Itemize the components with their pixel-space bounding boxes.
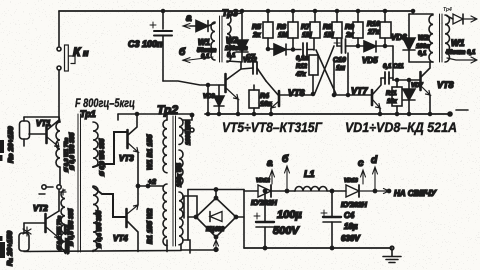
wire Tr3 primary to rail bbox=[227, 10, 244, 41]
wire cross coupling left bbox=[316, 50, 336, 94]
diode VD3 bbox=[214, 85, 224, 114]
svg-text:1М: 1М bbox=[278, 32, 288, 39]
label VD6 bbox=[391, 33, 407, 42]
svg-text:Ø 0,4 W6 35б: Ø 0,4 W6 35б bbox=[96, 210, 103, 248]
wire Tr1 bottoms to rail bbox=[65, 250, 93, 252]
label F 800Hz-5kHz bbox=[75, 98, 135, 110]
thyristor VD9 KU202N bbox=[256, 178, 295, 197]
wire VT1 collector feed bbox=[24, 116, 59, 118]
svg-text:R5: R5 bbox=[252, 24, 261, 31]
label VT1 bbox=[36, 119, 51, 128]
svg-text:VT4: VT4 bbox=[113, 234, 128, 243]
svg-text:R7: R7 bbox=[301, 24, 311, 31]
Tr3 primary winding W2 right coil bbox=[227, 15, 231, 62]
svg-text:10к: 10к bbox=[387, 99, 398, 105]
diode VD4 bbox=[267, 44, 302, 55]
svg-text:1м: 1м bbox=[336, 65, 346, 72]
transformer Tr1 label bbox=[80, 109, 96, 119]
capacitor C8 0.1u bbox=[303, 43, 314, 56]
svg-text:VD6: VD6 bbox=[391, 33, 407, 42]
svg-text:Тр1: Тр1 bbox=[80, 109, 96, 119]
label R10 27k bbox=[367, 21, 380, 36]
transformer Tr1 bbox=[56, 114, 98, 252]
label W2 100vit of Tr3 bbox=[225, 36, 248, 59]
svg-text:R10: R10 bbox=[367, 21, 380, 28]
resistor R10 bbox=[380, 10, 391, 47]
label VT7 bbox=[351, 86, 369, 96]
wire emitter bus down bbox=[58, 117, 60, 122]
Tr1 winding W6 right lower bbox=[93, 186, 98, 250]
label 100u 500V bbox=[273, 209, 302, 237]
svg-text:0,1м: 0,1м bbox=[296, 56, 309, 62]
label R emitter 20-150 rotated bbox=[6, 126, 15, 163]
label R11 10k bbox=[386, 91, 398, 105]
label W5 rotated bbox=[68, 208, 75, 246]
svg-text:R11: R11 bbox=[386, 91, 397, 97]
resistor R7 bbox=[310, 10, 320, 51]
svg-text:Rэ 20÷150: Rэ 20÷150 bbox=[6, 126, 15, 163]
terminal b arrow bbox=[282, 153, 290, 193]
wire junction vertical bbox=[312, 62, 336, 97]
svg-text:VD13: VD13 bbox=[344, 178, 358, 184]
svg-text:1М: 1М bbox=[324, 32, 334, 39]
transistor VT5 bbox=[226, 62, 242, 114]
label VT3 bbox=[119, 154, 134, 163]
wire bottom right rail bbox=[244, 247, 392, 249]
terminal d arrow bbox=[371, 155, 378, 193]
Tr1 core bbox=[78, 114, 81, 252]
diode VD6 bbox=[403, 14, 433, 62]
svg-text:а: а bbox=[267, 158, 273, 169]
diode VD1 on winding output a bbox=[183, 21, 215, 32]
label R4 10k bbox=[260, 93, 272, 108]
svg-text:0,1: 0,1 bbox=[201, 54, 210, 60]
Tr2 primary W1 left coil bbox=[163, 120, 167, 173]
Tr1 winding W4 right upper bbox=[93, 122, 98, 167]
svg-text:а: а bbox=[186, 13, 192, 24]
transistor VT4 bbox=[93, 187, 138, 252]
wire output bus bbox=[244, 190, 258, 192]
Tr2 primary W2 left lower coil bbox=[163, 184, 167, 246]
svg-text:VT2: VT2 bbox=[33, 204, 48, 213]
svg-text:НА СВЕЧУ: НА СВЕЧУ bbox=[394, 189, 437, 198]
svg-text:VD12: VD12 bbox=[256, 178, 270, 184]
wire output b with arrow bbox=[183, 57, 213, 63]
label caption VT5-VT8 KT315G bbox=[222, 120, 323, 135]
terminal c arrow bbox=[358, 158, 366, 184]
Tr2 secondary W5 right upper coil bbox=[179, 118, 183, 144]
svg-text:W2: W2 bbox=[418, 35, 429, 42]
transistor VT7 bbox=[333, 78, 381, 114]
diode VD5 bbox=[357, 41, 394, 52]
svg-text:47к: 47к bbox=[295, 72, 307, 78]
label C10 1m bbox=[333, 57, 346, 72]
svg-text:С4: С4 bbox=[344, 211, 355, 220]
svg-text:КУ202Н: КУ202Н bbox=[341, 202, 368, 209]
label KU202N right bbox=[341, 202, 368, 209]
label VD5 bbox=[362, 56, 378, 65]
transistor VT1 bbox=[29, 120, 59, 147]
wire C3 to VT5 base bbox=[163, 81, 224, 87]
wire left riser to mid rail bbox=[207, 85, 210, 116]
svg-text:0,1: 0,1 bbox=[227, 53, 236, 59]
wire cross coupling right bbox=[315, 46, 334, 93]
label KTs402 bbox=[206, 227, 225, 233]
Tr3 secondary winding W1 left coil bbox=[211, 22, 215, 60]
label VD3 bbox=[203, 94, 215, 100]
wire mid ground rail bbox=[205, 110, 468, 116]
label VT6 bbox=[288, 88, 306, 98]
transformer Tr2 bbox=[163, 116, 183, 246]
svg-text:VT1: VT1 bbox=[36, 119, 51, 128]
Tr4 primary W2 left coil bbox=[429, 15, 433, 62]
svg-text:0,1: 0,1 bbox=[418, 51, 427, 57]
svg-text:С7: С7 bbox=[246, 54, 256, 61]
svg-text:c: c bbox=[358, 158, 364, 169]
Tr2 core bbox=[173, 116, 176, 246]
svg-text:Ø 0,6 W4 35б: Ø 0,6 W4 35б bbox=[99, 138, 106, 176]
svg-text:R9: R9 bbox=[345, 24, 354, 31]
Tr3 core bbox=[220, 16, 223, 62]
svg-text:VT7: VT7 bbox=[351, 86, 369, 96]
label VT2 bbox=[33, 204, 48, 213]
label 0.1u bbox=[296, 56, 309, 62]
label W2 100vit of Tr4 bbox=[416, 35, 430, 57]
svg-text:27к: 27к bbox=[367, 29, 380, 36]
label b (left output) bbox=[179, 46, 186, 58]
pushbutton Kn bbox=[57, 11, 75, 117]
svg-text:2к: 2к bbox=[252, 32, 261, 39]
svg-text:В1 15б W2: В1 15б W2 bbox=[146, 208, 154, 244]
Tr1 winding W3 left upper bbox=[56, 122, 60, 167]
wire Tr1 left terminal bbox=[59, 117, 60, 184]
wire VD5 output down to VT8 base bbox=[392, 46, 394, 80]
diode VD8 top output bbox=[447, 14, 477, 24]
terminal a arrow bbox=[267, 158, 275, 184]
svg-text:VD1÷VD8–КД 521А: VD1÷VD8–КД 521А bbox=[345, 120, 457, 135]
label caption VD1-VD8 KD521A bbox=[345, 120, 457, 135]
label winding lower extra rotated bbox=[57, 215, 63, 250]
svg-text:50вит 0,1: 50вит 0,1 bbox=[446, 50, 476, 56]
resistor R1 box bbox=[20, 117, 30, 146]
diode VD2 bbox=[227, 40, 248, 62]
resistor R12 bbox=[309, 55, 318, 94]
svg-text:Тр4: Тр4 bbox=[443, 7, 452, 13]
label Kn bbox=[73, 45, 89, 59]
capacitor C11 bbox=[381, 72, 393, 84]
svg-text:W1: W1 bbox=[451, 38, 465, 48]
label C11 bbox=[383, 64, 404, 70]
wire bridge right vertex bbox=[236, 216, 244, 218]
svg-text:100к W4: 100к W4 bbox=[177, 163, 183, 187]
transformer Tr3 bbox=[211, 8, 238, 62]
label Tr2 bbox=[157, 103, 178, 117]
label NA SVECHU bbox=[394, 189, 437, 198]
label W5 100 rotated bbox=[185, 120, 192, 145]
svg-text:VD5: VD5 bbox=[362, 56, 378, 65]
label C3 100p bbox=[128, 39, 163, 49]
svg-text:500V: 500V bbox=[273, 225, 300, 237]
label element battery rotated bbox=[65, 224, 71, 254]
capacitor C4 bbox=[321, 191, 341, 250]
ink blob left edge upper bbox=[0, 140, 4, 161]
svg-text:б: б bbox=[179, 46, 186, 58]
label Tr4 tick bbox=[440, 14, 443, 62]
transformer Tr4 bbox=[429, 7, 452, 62]
label VD2 bbox=[243, 57, 257, 64]
inductor L1 bbox=[294, 169, 327, 191]
svg-text:100µ: 100µ bbox=[277, 209, 302, 221]
wire bottom left rail 2 bbox=[181, 244, 218, 250]
svg-text:630V: 630V bbox=[341, 234, 360, 243]
capacitor C3 bbox=[150, 10, 172, 82]
Tr4 secondary W1 right coil bbox=[445, 15, 450, 62]
bridge rectifier KTs402 bbox=[194, 196, 237, 238]
label R9 2k bbox=[345, 24, 354, 39]
transistor VT2 bbox=[24, 190, 59, 251]
Tr1 winding W5 left lower bbox=[61, 190, 65, 250]
resistor R5 bbox=[263, 10, 273, 50]
svg-text:VT5÷VT8–КТ315Г: VT5÷VT8–КТ315Г bbox=[222, 120, 323, 135]
svg-text:1М: 1М bbox=[302, 32, 312, 39]
label W1 B1 rotated bbox=[146, 134, 154, 170]
wire rail to Tr4 bbox=[409, 10, 433, 15]
label W1 50vit of Tr4 bbox=[446, 38, 476, 56]
label R8 1M bbox=[323, 24, 334, 39]
svg-text:VT3: VT3 bbox=[119, 154, 134, 163]
capacitor C5 100u bbox=[254, 189, 274, 249]
ink blob left edge lower bbox=[0, 236, 5, 258]
label R1 20-150 rotated bbox=[5, 230, 14, 266]
transistor VT8 bbox=[393, 62, 432, 116]
label W4 rotated bbox=[99, 138, 106, 176]
svg-text:Ø 0,6 W3 35б: Ø 0,6 W3 35б bbox=[69, 132, 76, 170]
wire L1 to VD10 bbox=[327, 189, 346, 192]
capacitor C7 bbox=[241, 62, 266, 81]
svg-text:2к: 2к bbox=[345, 32, 354, 39]
label W3 rotated bbox=[69, 132, 76, 170]
label W6 rotated bbox=[96, 210, 103, 248]
resistor R4 bbox=[249, 85, 259, 114]
label C4 10u 630V bbox=[341, 211, 360, 243]
svg-text:VT6: VT6 bbox=[288, 88, 306, 98]
transistor VT6 bbox=[266, 81, 313, 114]
wire bridge bottom to rail bbox=[214, 237, 219, 251]
label winding w2 rotated extra bbox=[64, 137, 70, 172]
label R5 2k bbox=[252, 24, 261, 39]
resistor R11 bbox=[392, 79, 402, 116]
svg-text:С10: С10 bbox=[333, 57, 346, 64]
svg-text:100в: 100в bbox=[416, 44, 430, 50]
Tr2 secondary W4 right middle coil bbox=[179, 150, 183, 185]
wire bridge left vertex bbox=[188, 216, 196, 218]
label VD7 bbox=[411, 83, 423, 89]
svg-text:+2: +2 bbox=[148, 179, 156, 186]
wire bottom output d with arrow bbox=[447, 57, 477, 63]
svg-text:10к: 10к bbox=[260, 101, 272, 108]
diode VD7 bbox=[403, 79, 415, 116]
resistor R6 bbox=[288, 10, 298, 50]
svg-text:R8: R8 bbox=[323, 24, 332, 31]
label W1 50vit of Tr3 bbox=[197, 38, 217, 60]
wire bottom left rail bbox=[24, 251, 181, 252]
svg-text:Ø 0,6 W5 35б: Ø 0,6 W5 35б bbox=[68, 208, 75, 246]
svg-text:R12: R12 bbox=[296, 64, 308, 70]
thyristor VD10 KU202N bbox=[344, 178, 391, 197]
svg-text:10µ: 10µ bbox=[344, 222, 358, 231]
svg-text:н: н bbox=[83, 48, 89, 58]
wire mid horizontal bus bbox=[118, 113, 194, 120]
svg-text:б: б bbox=[282, 153, 289, 165]
svg-text:VT8: VT8 bbox=[437, 80, 454, 90]
wire bridge top bus bbox=[188, 188, 244, 240]
svg-text:L1: L1 bbox=[304, 169, 315, 179]
svg-text:КЦ402: КЦ402 bbox=[206, 227, 225, 233]
wire bridge top vertex riser bbox=[215, 190, 217, 199]
svg-text:R4: R4 bbox=[260, 93, 269, 100]
svg-text:W1: W1 bbox=[198, 38, 211, 47]
ground bbox=[383, 246, 401, 262]
wire Tr2 connections bbox=[167, 114, 197, 253]
label C7 bbox=[246, 54, 256, 61]
wire emitter join VT3 VT4 bbox=[136, 152, 139, 205]
label VT8 bbox=[437, 80, 454, 90]
label W2 B1 rotated bbox=[146, 208, 154, 244]
resistor R9 bbox=[353, 10, 363, 47]
wire plus riser to output bbox=[243, 190, 245, 249]
wire center tap to Tr2 bbox=[138, 179, 163, 188]
svg-text:R₁ 20÷150: R₁ 20÷150 bbox=[5, 230, 14, 266]
lamp asterisk bbox=[23, 227, 31, 236]
svg-text:W1 В1 15б: W1 В1 15б bbox=[146, 134, 154, 170]
svg-text:VD3: VD3 bbox=[203, 94, 215, 100]
resistor R2 box bbox=[19, 223, 29, 251]
svg-text:R6: R6 bbox=[277, 24, 286, 31]
battery terminal circles bbox=[39, 185, 66, 195]
label R6 1M bbox=[277, 24, 288, 39]
svg-text:d: d bbox=[371, 155, 378, 166]
label R7 1M bbox=[301, 24, 312, 39]
label R12 47k bbox=[295, 64, 308, 78]
Tr2 secondary W6 right lower coil bbox=[179, 192, 183, 245]
wire top supply rail bbox=[59, 10, 413, 12]
label VT4 bbox=[113, 234, 128, 243]
capacitor C10 bbox=[334, 39, 358, 97]
svg-text:С3: С3 bbox=[128, 39, 140, 49]
label KU202N left bbox=[251, 200, 278, 207]
label a (left output) bbox=[186, 13, 192, 24]
resistor R8 bbox=[332, 10, 342, 47]
svg-text:100п: 100п bbox=[142, 39, 163, 49]
transistor VT3 bbox=[93, 113, 139, 168]
label W4 100 rotated bbox=[177, 163, 183, 187]
